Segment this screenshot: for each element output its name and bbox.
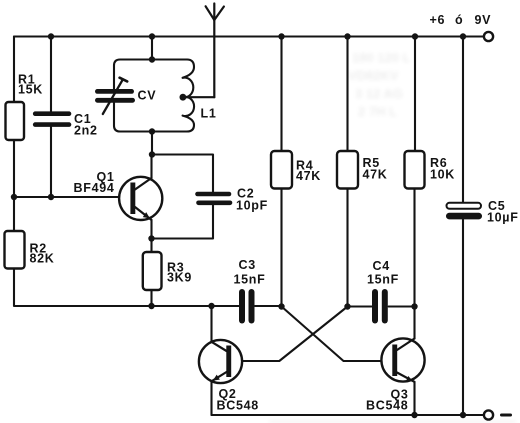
terminal +V — [484, 32, 493, 41]
svg-text:2n2: 2n2 — [74, 124, 98, 138]
label L1 — [201, 107, 217, 121]
wire Q2 emitter — [210, 381, 212, 415]
transistor Q2 — [199, 340, 242, 383]
wire left rail upper — [13, 37, 15, 104]
resistor R1 — [6, 102, 25, 140]
label R6 10K — [430, 156, 455, 182]
wire tank loop top/left/bottom — [114, 60, 187, 132]
svg-text:15K: 15K — [18, 83, 43, 97]
wire Q1 collector — [150, 155, 152, 179]
wire cross-couple to Q3 base — [282, 307, 393, 362]
svg-text:47K: 47K — [363, 168, 388, 182]
node C5 top on rail — [460, 33, 466, 39]
wire base of Q1 — [14, 196, 131, 198]
label minus — [502, 414, 511, 417]
wire R4 branch — [280, 37, 282, 307]
wire R2 bottom and bottom-left bus — [14, 269, 239, 307]
resistor R3 — [143, 252, 162, 290]
antenna — [206, 4, 224, 98]
svg-text:2 7H L: 2 7H L — [358, 104, 397, 119]
wire bottom rail — [212, 414, 484, 416]
wire R6 branch — [413, 37, 416, 307]
svg-text:15nF: 15nF — [234, 273, 266, 287]
label C2 10pF — [236, 187, 268, 213]
label R3 3K9 — [167, 261, 192, 285]
wire C2 top loop — [152, 155, 213, 193]
label C5 10uF — [487, 199, 519, 225]
node Q1 emitter junction — [148, 235, 154, 241]
label R5 47K — [363, 156, 388, 182]
wire Q3 collector — [413, 307, 415, 339]
svg-text:CV: CV — [138, 89, 157, 103]
wire tap to antenna — [183, 96, 214, 98]
node L1 tap — [180, 94, 187, 101]
wire R5 branch — [346, 37, 348, 307]
node R5 top on rail — [344, 33, 350, 39]
wire C5 top lead — [462, 37, 464, 204]
label R2 82K — [30, 242, 55, 266]
svg-text:10pF: 10pF — [236, 199, 268, 213]
node left-base junction — [11, 194, 17, 200]
svg-text:BC548: BC548 — [217, 399, 259, 413]
wire C2 bottom loop — [152, 205, 213, 239]
label Q2 BC548 — [217, 387, 259, 413]
node tank top — [149, 56, 155, 62]
node Q2 collector junction — [208, 303, 214, 309]
capacitor C1 — [35, 114, 69, 125]
wire Q1 emitter — [150, 220, 152, 239]
wire cross-couple to Q2 base — [231, 307, 347, 362]
label C4 15nF — [367, 259, 399, 287]
svg-text:BC548: BC548 — [366, 399, 408, 413]
node R4 bottom junction — [278, 303, 284, 309]
svg-text:15nF: 15nF — [367, 273, 399, 287]
capacitor C2 — [198, 194, 231, 203]
resistor R4 — [271, 151, 292, 189]
node R3 bottom junction — [148, 303, 154, 309]
svg-text:BF494: BF494 — [74, 181, 115, 195]
resistor R5 — [337, 151, 358, 189]
wire C4 left lead — [348, 305, 372, 307]
svg-text:ó: ó — [455, 13, 463, 27]
node R6 top on rail — [412, 33, 418, 39]
wire R1 bottom to base node — [13, 140, 15, 197]
transistor Q1 — [119, 177, 162, 220]
svg-text:C4: C4 — [373, 259, 390, 273]
label R4 47K — [296, 159, 321, 184]
node R6 bottom junction — [411, 303, 417, 309]
capacitor C3 — [242, 292, 252, 321]
node Q1 collector junction — [149, 151, 155, 157]
wire R2 top lead — [13, 197, 15, 232]
node R5 bottom junction — [344, 303, 350, 309]
wire C5 bottom lead — [462, 220, 464, 416]
wire C3 right to R4 node — [255, 305, 282, 307]
svg-text:9V: 9V — [475, 13, 492, 27]
wire top rail — [14, 35, 484, 37]
wire tank bottom to collector node — [151, 132, 153, 155]
node R4 top on rail — [278, 33, 284, 39]
inductor L1 — [183, 60, 194, 132]
capacitor C4 — [375, 292, 385, 321]
svg-text:VD82KV: VD82KV — [348, 68, 399, 83]
svg-text:3K9: 3K9 — [167, 271, 192, 285]
transistor Q3 — [381, 338, 424, 381]
label CV — [138, 89, 157, 103]
svg-text:10K: 10K — [430, 168, 455, 182]
wire R3 bottom lead — [150, 290, 152, 306]
node tank bottom — [149, 128, 155, 134]
label +6 ó 9V — [430, 13, 492, 27]
wire rail to tank — [151, 37, 153, 60]
node Q3 emitter on rail — [411, 412, 417, 418]
svg-text:82K: 82K — [30, 252, 55, 266]
svg-text:C3: C3 — [239, 258, 256, 272]
label R1 15K — [18, 73, 43, 97]
label C1 2n2 — [74, 112, 98, 138]
svg-text:47K: 47K — [296, 169, 321, 183]
resistor R2 — [5, 231, 25, 269]
label Q1 BF494 — [74, 170, 115, 195]
svg-text:10µF: 10µF — [487, 211, 519, 225]
svg-text:180 120 L: 180 120 L — [352, 50, 411, 65]
label C3 15nF — [234, 258, 266, 287]
wire C1 top lead — [50, 37, 52, 113]
wire Q2 collector — [210, 306, 212, 342]
terminal -V — [484, 410, 493, 419]
node C5 bottom on rail — [460, 412, 466, 418]
svg-text:3 12 AG: 3 12 AG — [355, 86, 403, 101]
wire Q3 emitter — [413, 382, 415, 415]
node C1 top on rail — [48, 33, 54, 39]
label Q3 BC548 — [366, 388, 409, 413]
svg-text:L1: L1 — [201, 107, 217, 121]
svg-text:+6: +6 — [430, 13, 446, 27]
node tank top on rail — [149, 33, 155, 39]
resistor R6 — [405, 151, 425, 189]
capacitor CV — [97, 78, 132, 114]
wire R3 top lead — [150, 239, 152, 254]
wire C1 bottom lead — [50, 126, 52, 197]
node C1 bottom junction — [48, 194, 54, 200]
wire C4 right lead — [389, 305, 415, 307]
capacitor C5 — [446, 203, 482, 220]
